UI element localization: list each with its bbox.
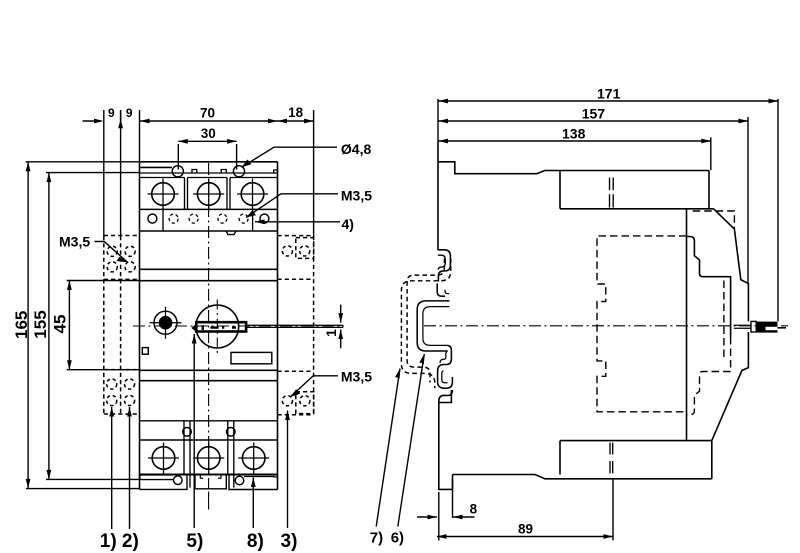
dim 171 bbox=[439, 100, 779, 102]
dim 70 line bbox=[140, 120, 278, 122]
side flanges dashed bbox=[104, 236, 314, 415]
svg-text:6): 6) bbox=[391, 529, 404, 546]
big dashed box bbox=[597, 236, 687, 412]
leader 4) bbox=[255, 221, 340, 223]
dashed mid vertical bbox=[723, 281, 725, 362]
callout leader 3) bbox=[287, 411, 289, 529]
svg-text:9: 9 bbox=[108, 106, 115, 120]
svg-text:5): 5) bbox=[186, 531, 203, 552]
dim 138 bbox=[439, 140, 711, 142]
svg-text:70: 70 bbox=[200, 106, 215, 121]
rail seat bbox=[417, 301, 449, 351]
dim 9 9 extension lines bbox=[104, 110, 140, 236]
top cover line with slot bbox=[140, 166, 278, 177]
top profile bbox=[438, 162, 709, 174]
pointer needle bbox=[247, 325, 344, 327]
small terminal circle strip bbox=[140, 209, 278, 234]
front face plane bbox=[686, 209, 688, 441]
dim 165 bbox=[26, 162, 140, 489]
dim 1 (needle width) bbox=[340, 305, 342, 349]
texts side view bbox=[370, 86, 621, 547]
bottom screws bbox=[152, 447, 175, 470]
feet bbox=[140, 475, 278, 490]
top hook bbox=[438, 250, 451, 282]
svg-text:2): 2) bbox=[122, 531, 139, 552]
clamp posts bbox=[184, 421, 234, 488]
svg-text:89: 89 bbox=[518, 522, 533, 537]
centerlines front view bbox=[133, 163, 343, 510]
dim 157 bbox=[439, 120, 749, 122]
notch under strip bbox=[226, 231, 236, 235]
aux test button bbox=[150, 307, 182, 339]
top block break marks bbox=[610, 178, 614, 208]
clip tail bbox=[439, 390, 453, 403]
svg-text:M3,5: M3,5 bbox=[341, 188, 372, 204]
dim 18 line bbox=[278, 120, 314, 122]
svg-text:M3,5: M3,5 bbox=[59, 234, 90, 250]
leader M3,5 top right bbox=[246, 194, 338, 218]
bottom dashed staircase bbox=[687, 337, 731, 415]
small square indicator bbox=[142, 348, 148, 355]
top right dashed corner bbox=[693, 211, 735, 229]
side view dims bbox=[376, 99, 788, 541]
top block bbox=[560, 171, 714, 209]
DIN clip solid bbox=[417, 250, 452, 403]
needle side view bbox=[734, 325, 751, 328]
bottom terminal block bbox=[140, 421, 278, 490]
callout leader 2) bbox=[129, 407, 131, 529]
svg-text:M3,5: M3,5 bbox=[341, 368, 372, 384]
svg-text:171: 171 bbox=[597, 86, 621, 102]
svg-text:138: 138 bbox=[562, 126, 586, 142]
top cover tabs bbox=[192, 170, 278, 174]
side view hidden dashed lines bbox=[597, 211, 734, 415]
svg-text:157: 157 bbox=[582, 106, 606, 122]
dim 9 9 line left arrow tail bbox=[83, 120, 102, 122]
left foot bbox=[439, 403, 453, 490]
arrowheads for side view dimensions and leaders bbox=[395, 99, 778, 539]
dim 45 bbox=[67, 281, 140, 370]
label rectangle bbox=[231, 352, 272, 363]
bottom block bbox=[560, 441, 712, 479]
svg-text:8): 8) bbox=[247, 531, 264, 552]
right top diagonal bbox=[714, 209, 735, 229]
svg-text:Ø4,8: Ø4,8 bbox=[341, 141, 372, 157]
dial marker triangle bbox=[191, 324, 196, 332]
top screw boxes bbox=[140, 178, 278, 210]
base profile bbox=[453, 475, 712, 479]
svg-text:165: 165 bbox=[12, 311, 31, 339]
dim 30 bbox=[178, 141, 236, 169]
left mounting plane upper bbox=[437, 142, 439, 250]
lower spring hook bbox=[438, 345, 453, 388]
svg-text:45: 45 bbox=[51, 315, 70, 334]
hole O4.8 right bbox=[233, 166, 244, 177]
dim 89 bbox=[437, 480, 613, 541]
leader 6) bbox=[398, 354, 425, 527]
leader 7) bbox=[376, 369, 400, 527]
svg-text:7): 7) bbox=[370, 529, 383, 546]
dim 9 9 middle up-arrow shaft bbox=[120, 110, 122, 121]
svg-text:1): 1) bbox=[100, 531, 117, 552]
leader M3,5 left bbox=[95, 242, 128, 263]
mid face horizontal lines bbox=[140, 269, 278, 380]
svg-text:1: 1 bbox=[323, 329, 339, 337]
front view body outline bbox=[140, 162, 278, 490]
callout leader 5) bbox=[193, 334, 195, 528]
centerline bbox=[424, 325, 788, 327]
svg-text:30: 30 bbox=[201, 126, 216, 141]
right outer profile bbox=[712, 229, 749, 441]
bottom edge and feet bbox=[140, 474, 278, 476]
svg-text:8: 8 bbox=[470, 501, 478, 516]
ext lines bbox=[438, 99, 778, 321]
callout leader 8) bbox=[252, 478, 254, 529]
bottom block break marks bbox=[610, 443, 613, 474]
svg-text:3): 3) bbox=[281, 531, 298, 552]
callout leader 1) bbox=[111, 407, 113, 529]
ext line right 18 bbox=[313, 110, 315, 236]
more groups appended below bbox=[26, 110, 341, 529]
DIN rail dashed bbox=[401, 259, 450, 389]
svg-text:4): 4) bbox=[342, 216, 354, 232]
leader M3,5 bottom right bbox=[290, 376, 338, 397]
svg-text:155: 155 bbox=[31, 310, 50, 338]
dim 155 bbox=[46, 173, 140, 480]
clip edge between hooks bbox=[437, 284, 445, 297]
rotary handle bbox=[191, 305, 343, 348]
texts front view bbox=[12, 105, 372, 552]
svg-text:9: 9 bbox=[126, 106, 133, 120]
hole O4.8 left bbox=[172, 166, 183, 177]
top solid staircase bbox=[687, 237, 731, 338]
svg-text:18: 18 bbox=[288, 105, 304, 120]
arrowheads for front view dimensions and leaders bbox=[26, 119, 343, 489]
leader O4,8 bbox=[242, 147, 338, 167]
dim 8 bbox=[417, 480, 475, 541]
big terminal screws with crosshairs bbox=[152, 183, 175, 206]
